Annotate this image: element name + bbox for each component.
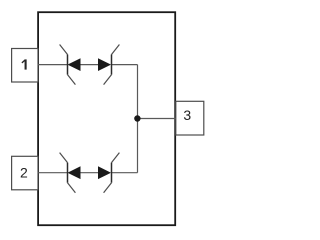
zener diode D2 (top-right, cathode right) (98, 45, 119, 85)
pin 2 box (12, 156, 38, 190)
wire vertical right bus (137, 65, 139, 173)
zener diode D4 (bottom-right, cathode right) (98, 153, 119, 193)
wire D4 cathode to right bus (112, 172, 138, 174)
wire pin2 to D3 bar (38, 172, 68, 174)
pin 1 box (12, 49, 38, 83)
svg-text:2: 2 (20, 164, 28, 180)
junction node (134, 115, 140, 121)
wire between D1 and D2 (top pair midpoint) (81, 64, 99, 66)
wire D2 cathode to right bus (112, 64, 138, 66)
pin 1 label (22, 59, 26, 69)
wire junction to pin 3 (138, 118, 176, 120)
zener diode D1 (top-left, cathode left) (60, 45, 81, 85)
package outline (38, 12, 175, 225)
wire between D3 and D4 (bottom pair midpoint) (81, 172, 99, 174)
wire pin1 to D1 anode bar (38, 64, 68, 66)
zener diode D3 (bottom-left, cathode left) (60, 153, 81, 193)
svg-text:3: 3 (183, 107, 191, 123)
pin 3 box (176, 101, 204, 135)
